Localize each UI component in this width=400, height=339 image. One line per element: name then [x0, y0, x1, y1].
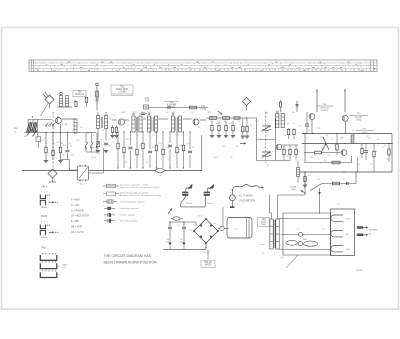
- dial scale tick marks: [35, 63, 361, 70]
- trimmer circle: [276, 111, 278, 113]
- wires resistor column: [45, 133, 47, 148]
- svg-text:C40: C40: [213, 223, 216, 225]
- svg-text:Light plastic capacitor: Light plastic capacitor: [120, 207, 139, 210]
- svg-text:Vcc: Vcc: [305, 119, 308, 121]
- svg-text:c: c: [59, 275, 60, 277]
- svg-text:R6: R6: [61, 143, 63, 145]
- svg-text:THE CIRCUIT DIAGRAM HAS: THE CIRCUIT DIAGRAM HAS: [104, 254, 152, 258]
- capacitor C14: [346, 182, 348, 185]
- resistor R3: [190, 106, 197, 109]
- label TS2 box: [111, 85, 133, 94]
- svg-text:C1: C1: [259, 115, 261, 117]
- svg-text:R41: R41: [377, 139, 380, 141]
- resistor R15: [162, 149, 164, 155]
- svg-text:0.05: 0.05: [186, 143, 189, 145]
- resistor R20: [210, 117, 217, 120]
- svg-text:C32: C32: [327, 155, 330, 157]
- svg-text:a1-b5: a1-b5: [260, 244, 265, 246]
- voltmeter lead: [231, 190, 233, 195]
- switch SW-C bracket 3: [40, 272, 57, 277]
- wire: [62, 118, 76, 120]
- switch SW-A bracket 2: [40, 200, 45, 205]
- svg-text:B = BB: B = BB: [71, 220, 79, 223]
- IF transformer T11 primary: [132, 116, 135, 132]
- svg-text:7HB: 7HB: [145, 101, 150, 103]
- svg-text:VOLTMETER: VOLTMETER: [239, 199, 255, 203]
- svg-text:0.02: 0.02: [80, 127, 83, 129]
- svg-text:IFT1: IFT1: [133, 112, 137, 114]
- svg-text:10: 10: [238, 121, 240, 123]
- wire risers from schematic: [269, 195, 271, 213]
- IF transformer T12 secondary: [154, 116, 157, 132]
- capacitor C2: [167, 106, 169, 109]
- label TS1 box: [73, 90, 86, 96]
- svg-text:C30: C30: [308, 130, 311, 132]
- trimmer circle: [133, 113, 135, 115]
- crystal X1 diamond: [45, 95, 54, 104]
- resistor R26: [287, 129, 289, 134]
- svg-text:BEEN DRAWN IN MW-POSITION: BEEN DRAWN IN MW-POSITION: [104, 261, 158, 265]
- driver coil: [297, 168, 300, 177]
- coil L5: [105, 116, 108, 129]
- switch box terminals: [79, 165, 81, 167]
- svg-text:DX = BOOSTER: DX = BOOSTER: [71, 215, 89, 218]
- svg-text:T13: T13: [176, 135, 179, 137]
- resistor R30: [336, 144, 338, 150]
- IF transformer T13 secondary: [178, 116, 181, 132]
- transistor T4b: [276, 144, 282, 150]
- wire: [282, 144, 298, 146]
- svg-text:5k: 5k: [146, 162, 148, 164]
- svg-text:Electrolytic capacitor: Electrolytic capacitor: [120, 220, 138, 223]
- legend row 5 capacitor: [104, 214, 108, 216]
- legend row 4 capacitor: [104, 207, 108, 209]
- arrows: [49, 231, 53, 233]
- svg-text:DET: DET: [191, 112, 194, 114]
- svg-text:(2SB): (2SB): [291, 189, 296, 191]
- resistor R14: [155, 145, 157, 151]
- legend row 1 resistor: [103, 185, 107, 187]
- svg-text:GND: GND: [346, 249, 351, 251]
- svg-text:10: 10: [384, 145, 386, 147]
- capacitor C6: [66, 149, 70, 151]
- svg-text:SW-A: SW-A: [41, 186, 48, 189]
- wire: [281, 233, 298, 235]
- resistor under T2 b: [115, 128, 117, 133]
- trimmer box: [36, 137, 41, 142]
- svg-text:D1: D1: [190, 230, 192, 232]
- variable capacitor C1b: [262, 151, 271, 153]
- capacitor C7: [104, 142, 108, 144]
- svg-text:78-6M: 78-6M: [168, 107, 175, 109]
- wire from switch box: [89, 172, 104, 174]
- antenna arrow 1: [27, 131, 30, 136]
- svg-text:100k: 100k: [215, 123, 219, 125]
- svg-text:0.02: 0.02: [139, 145, 142, 147]
- resistor R21b: [234, 117, 240, 119]
- fuse holder oval 1: [287, 240, 298, 245]
- svg-text:220p: 220p: [96, 153, 100, 155]
- switch SW-A bracket 1: [40, 195, 45, 199]
- power rail bottom: [163, 248, 206, 250]
- resistor R21: [223, 117, 230, 120]
- svg-text:Ceramic capacitor: Ceramic capacitor: [120, 214, 136, 217]
- svg-text:CR1-1/2: CR1-1/2: [203, 252, 210, 254]
- resistor R19: [188, 150, 192, 152]
- connector loop 3: [331, 246, 343, 252]
- connector loop 2: [331, 231, 343, 237]
- crystal X3 diamond: [48, 169, 57, 178]
- wire: [311, 119, 313, 133]
- trimmer capacitor CT1: [60, 92, 62, 94]
- resistor R6: [59, 147, 61, 153]
- AF column resistor: [289, 149, 291, 154]
- coil L4: [97, 116, 100, 129]
- resistor R34: [304, 177, 306, 182]
- svg-text:All values ±/-10.5% P.D., all: All values ±/-10.5% P.D., all resistance…: [120, 194, 161, 197]
- switch wafer contacts: [85, 133, 87, 144]
- svg-text:0.1: 0.1: [306, 138, 308, 140]
- resistor R36: [373, 151, 375, 157]
- wire top row: [149, 107, 209, 109]
- svg-text:C8: C8: [100, 139, 102, 141]
- resistor R25: [232, 125, 234, 130]
- ground: [104, 150, 108, 152]
- tuning gang frame right: [274, 118, 276, 161]
- wire: [57, 106, 72, 108]
- pointer line: [286, 255, 298, 268]
- IF transformer T13 primary: [171, 116, 174, 132]
- wire: [97, 112, 99, 116]
- resistor R22: [211, 125, 213, 130]
- ferrite antenna winding B: [32, 122, 35, 133]
- resistor R13: [148, 150, 152, 152]
- svg-text:1k: 1k: [330, 179, 332, 181]
- resistor R11: [136, 149, 138, 155]
- switch SW-B bracket 2: [40, 230, 45, 235]
- svg-text:T2a: T2a: [113, 115, 116, 117]
- wire riser to flags: [222, 207, 224, 226]
- svg-text:1-2-MB: 1-2-MB: [118, 91, 126, 93]
- svg-text:C31: C31: [366, 136, 369, 138]
- lamp circle: [220, 226, 224, 230]
- resistor R35 horizontal: [333, 182, 340, 185]
- wire: [195, 222, 197, 226]
- transistor T5: [309, 114, 315, 120]
- svg-text:S4: S4: [297, 229, 299, 231]
- ground marker: [182, 243, 185, 246]
- connector block outline: [331, 209, 355, 256]
- svg-text:1k: 1k: [292, 156, 294, 158]
- svg-text:SW-B: SW-B: [41, 215, 48, 218]
- wire: [355, 172, 357, 184]
- capacitor C4 vertical: [296, 101, 298, 112]
- svg-text:R5: R5: [53, 143, 55, 145]
- dial scale right end caps: [370, 60, 372, 72]
- bridge rectifier BR1: [194, 219, 218, 243]
- core lines: [100, 117, 102, 129]
- output transformer secondary: [276, 219, 279, 249]
- voltmeter M1: [229, 195, 235, 201]
- svg-text:Trimmer electrolytic capacitor: Trimmer electrolytic capacitor: [120, 200, 145, 203]
- resistor R12: [142, 143, 144, 149]
- ground marker: [168, 243, 171, 246]
- B+ rail lower: [302, 143, 392, 145]
- svg-text:4.7k: 4.7k: [166, 147, 169, 149]
- switch SW-C bracket 1: [40, 255, 57, 260]
- svg-text:C23: C23: [231, 137, 234, 139]
- wire to crystal: [45, 92, 48, 96]
- IF transformer T12 primary: [147, 116, 150, 132]
- gang dashed link: [265, 112, 267, 163]
- wire transformer to connector top: [279, 217, 331, 219]
- resistor R23: [218, 125, 220, 130]
- tuning gang frame left: [256, 118, 258, 161]
- svg-text:1k: 1k: [333, 145, 335, 147]
- dial scale end mark: [374, 68, 375, 70]
- antenna trimmer assembly: [96, 85, 98, 110]
- earphone jack: [310, 184, 322, 191]
- resistor R27: [293, 129, 295, 134]
- resistor R4: [45, 147, 47, 153]
- mains arrow: [168, 210, 171, 214]
- svg-text:B: B: [110, 119, 111, 121]
- svg-text:C50: C50: [234, 229, 237, 231]
- svg-text:L1: L1: [36, 145, 38, 147]
- svg-text:47: 47: [331, 139, 333, 141]
- resistor under T2: [111, 128, 113, 133]
- svg-text:F1: F1: [178, 225, 180, 227]
- resistor R17: [176, 147, 178, 153]
- svg-text:455k: 455k: [148, 112, 152, 114]
- connector loop 1: [331, 215, 343, 221]
- wire: [183, 118, 193, 120]
- svg-text:2k: 2k: [287, 123, 289, 125]
- wire: [52, 178, 54, 182]
- svg-text:Valves % +/-0.5%+5%, all indic: Valves % +/-0.5%+5%, all indicated ±1.5%…: [120, 186, 160, 189]
- wire row: [206, 117, 257, 119]
- wire wafer bus: [86, 151, 97, 153]
- wire stub: [316, 91, 318, 112]
- svg-text:4: 4: [360, 145, 361, 147]
- svg-text:C6: C6: [69, 143, 71, 145]
- svg-text:5k: 5k: [293, 123, 295, 125]
- ground: [44, 160, 48, 162]
- svg-text:SW-C: SW-C: [41, 246, 48, 249]
- svg-text:MAZD: MAZD: [205, 264, 212, 267]
- capacitor C22: [182, 226, 186, 228]
- resistor R16: [168, 144, 172, 146]
- gang mid wire: [257, 139, 276, 141]
- svg-text:C11: C11: [159, 143, 162, 145]
- svg-text:C33: C33: [308, 175, 311, 177]
- arrow on row: [218, 111, 221, 113]
- wire top: [170, 221, 196, 223]
- feed wire into loop: [319, 188, 321, 214]
- voltmeter ground: [231, 201, 233, 207]
- svg-text:IFT2: IFT2: [172, 112, 176, 114]
- tick row: [41, 191, 43, 192]
- svg-text:25: 25: [382, 147, 384, 149]
- svg-text:1k: 1k: [48, 155, 50, 157]
- svg-text:10k: 10k: [91, 147, 94, 149]
- svg-text:6DX5-02: 6DX5-02: [75, 94, 85, 96]
- svg-text:R44: R44: [317, 179, 320, 181]
- dial scale figure smudges: [38, 62, 363, 70]
- svg-text:SP: SP: [343, 179, 345, 181]
- band switch box: [78, 166, 89, 180]
- svg-text:b2: b2: [262, 253, 264, 255]
- dial scale left end caps: [31, 60, 33, 72]
- oscillator coil L3: [74, 119, 77, 133]
- transistor T3: [193, 119, 199, 125]
- feedback loop wire: [305, 152, 315, 154]
- fuse F2 circle: [298, 232, 302, 236]
- svg-text:4.7: 4.7: [341, 157, 343, 159]
- IF transformer T14: [276, 114, 279, 128]
- legend row 3 capacitor: [103, 201, 107, 203]
- small arrow: [240, 143, 244, 145]
- wire stub: [344, 91, 346, 112]
- wire vertical: [201, 135, 203, 171]
- svg-text:C16: C16: [374, 151, 377, 153]
- svg-text:VOL: VOL: [266, 165, 269, 167]
- wire: [143, 118, 146, 120]
- resistor R37: [361, 148, 363, 153]
- svg-text:BATTERY: BATTERY: [369, 229, 379, 232]
- resistor R9: [123, 147, 125, 153]
- resistor R31 horizontal: [315, 151, 322, 154]
- svg-text:RT: RT: [326, 135, 328, 137]
- svg-text:W.L ba: W.L ba: [186, 203, 193, 205]
- electrolytic can C23: [227, 218, 252, 239]
- svg-text:R15: R15: [208, 112, 211, 114]
- AF column resistor: [295, 149, 297, 154]
- svg-text:C5/08: C5/08: [200, 109, 207, 111]
- resistor R7: [97, 141, 99, 147]
- chassis connector oval: [156, 169, 165, 173]
- dial scale outline: [29, 60, 377, 72]
- coil L6: [351, 135, 354, 143]
- svg-text:R18: R18: [292, 112, 295, 114]
- antenna lead-in wire: [41, 103, 49, 117]
- transistor T6: [342, 115, 348, 121]
- svg-text:R43: R43: [357, 164, 360, 166]
- svg-text:0.5: 0.5: [324, 160, 326, 162]
- svg-text:E1: E1: [160, 175, 162, 177]
- svg-text:220: 220: [179, 145, 182, 147]
- diode D1: [144, 105, 149, 109]
- wire mid rail left: [24, 132, 96, 134]
- svg-text:kc: kc: [183, 112, 185, 114]
- capacitor C17: [364, 150, 368, 152]
- svg-text:C8: C8: [55, 158, 57, 160]
- svg-text:b1-a: b1-a: [261, 224, 266, 226]
- svg-text:T1: T1: [168, 225, 170, 227]
- transformer core: [273, 220, 275, 248]
- wire right edge: [391, 134, 393, 173]
- svg-text:220: 220: [71, 155, 74, 157]
- svg-text:L2: L2: [42, 125, 44, 127]
- wave band flag 1: [187, 184, 193, 189]
- IF transformer T11 secondary: [139, 116, 142, 132]
- wire: [297, 161, 299, 168]
- svg-text:220: 220: [317, 128, 320, 130]
- battery arrow 2: [357, 234, 363, 236]
- svg-text:S = SW: S = SW: [71, 204, 80, 207]
- svg-text:220: 220: [314, 155, 317, 157]
- resistor R32 horizontal: [332, 161, 340, 164]
- arrow to circuit: [259, 187, 262, 189]
- wire antenna top: [28, 119, 52, 121]
- svg-text:2k: 2k: [192, 147, 194, 149]
- wave band flag 2: [209, 184, 215, 189]
- svg-text:4.7: 4.7: [63, 155, 65, 157]
- svg-text:0.5: 0.5: [341, 137, 343, 139]
- svg-text:(2SB54): (2SB54): [321, 110, 329, 112]
- label TR box: [258, 218, 270, 227]
- svg-text:1k: 1k: [152, 147, 154, 149]
- transistor T1: [56, 118, 62, 124]
- svg-text:C22: C22: [217, 137, 220, 139]
- resistor R33: [388, 149, 390, 155]
- svg-text:30p: 30p: [108, 145, 111, 147]
- switch SW-B bracket 1: [40, 225, 45, 229]
- svg-text:C5: C5: [45, 143, 47, 145]
- battery arrow 1: [357, 227, 363, 229]
- svg-text:250: 250: [322, 229, 325, 231]
- ground: [245, 135, 249, 137]
- svg-text:PL: PL: [222, 232, 224, 234]
- svg-text:60V06: 60V06: [356, 270, 363, 272]
- coil L1: [60, 96, 63, 107]
- flag connecting wire: [181, 206, 206, 208]
- ground: [58, 160, 62, 162]
- wire transformer to connector bottom: [279, 248, 331, 250]
- svg-text:T14: T14: [277, 115, 280, 117]
- capacitor C12: [305, 123, 309, 125]
- capacitor C21: [168, 226, 172, 228]
- svg-text:4C.ba: 4C.ba: [207, 203, 213, 205]
- fuse F1 oval: [173, 217, 180, 220]
- svg-text:455: 455: [166, 112, 169, 114]
- legend row 2 resistor: [103, 193, 107, 195]
- capacitor near T2: [141, 112, 145, 114]
- svg-text:T12: T12: [152, 135, 155, 137]
- svg-text:5k: 5k: [299, 126, 301, 128]
- svg-text:30: 30: [352, 130, 354, 132]
- ground rail right: [300, 171, 392, 173]
- transistor T2: [118, 119, 124, 125]
- resistor R24: [225, 125, 227, 130]
- svg-text:4.7k: 4.7k: [56, 142, 59, 144]
- gang cap resistor Ra: [242, 126, 244, 131]
- wire: [124, 119, 129, 121]
- svg-text:4C5-1/2: 4C5-1/2: [197, 216, 203, 218]
- resistor R2 vertical: [279, 102, 281, 107]
- tick row: [41, 221, 43, 222]
- svg-text:T1: T1: [49, 117, 51, 119]
- resistor R1b: [85, 97, 87, 102]
- svg-text:100: 100: [368, 138, 371, 140]
- svg-text:EL.TUNING: EL.TUNING: [239, 194, 253, 198]
- svg-text:68: 68: [236, 146, 238, 148]
- dial scale number row: [37, 69, 367, 71]
- switch SW-C bracket 2: [40, 263, 57, 268]
- svg-text:D = PHONO: D = PHONO: [71, 209, 84, 212]
- resistor R10: [129, 146, 133, 148]
- primary loop rectangle: [283, 213, 331, 255]
